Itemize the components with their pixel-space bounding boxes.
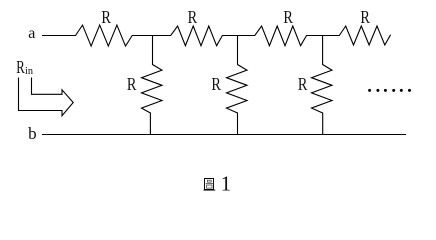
svg-text:a: a <box>28 25 35 42</box>
svg-text:R: R <box>16 57 25 77</box>
svg-text:R: R <box>298 74 308 94</box>
svg-text:R: R <box>360 7 370 27</box>
svg-text:in: in <box>25 65 33 77</box>
svg-text:R: R <box>127 74 136 94</box>
svg-text:R: R <box>283 7 293 27</box>
svg-text:R: R <box>188 7 198 27</box>
svg-text:1: 1 <box>221 171 232 195</box>
svg-text:R: R <box>101 7 111 27</box>
svg-text:b: b <box>28 124 36 143</box>
svg-text:R: R <box>211 74 221 94</box>
